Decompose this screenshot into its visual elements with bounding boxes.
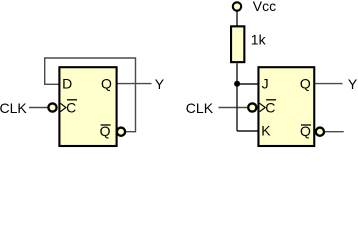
- svg-text:Y: Y: [348, 76, 358, 92]
- svg-text:K: K: [261, 123, 271, 139]
- svg-text:Q: Q: [300, 76, 311, 92]
- svg-text:CLK: CLK: [186, 100, 214, 116]
- svg-text:CLK: CLK: [0, 100, 27, 116]
- svg-text:C: C: [66, 100, 76, 116]
- svg-text:1k: 1k: [251, 31, 267, 47]
- svg-text:Vcc: Vcc: [253, 0, 276, 14]
- svg-text:D: D: [62, 76, 72, 92]
- svg-text:C: C: [265, 100, 275, 116]
- svg-text:J: J: [262, 76, 269, 92]
- svg-text:Q: Q: [101, 76, 112, 92]
- svg-text:Y: Y: [155, 76, 165, 92]
